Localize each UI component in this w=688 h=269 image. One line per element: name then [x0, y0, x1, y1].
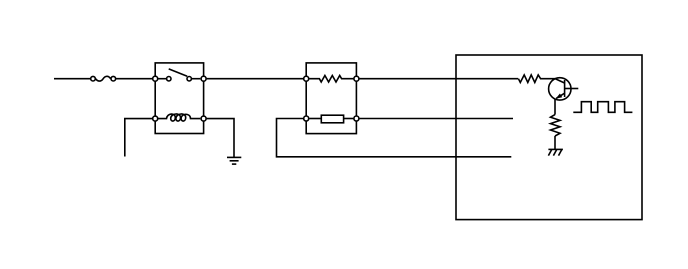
wire — [116, 78, 152, 80]
middle box terminal bottom-right — [354, 116, 359, 121]
relay terminal bottom-left — [153, 116, 158, 121]
middle box terminal top-left — [304, 76, 309, 81]
resistor R2 body — [321, 115, 343, 123]
transistor emitter with arrow — [556, 93, 564, 98]
square wave signal — [573, 102, 632, 113]
node: connector terminal left — [91, 76, 96, 81]
middle box terminal bottom-left — [304, 116, 309, 121]
transistor base bar — [564, 80, 566, 97]
relay box K1 — [155, 63, 203, 134]
relay terminal bottom-right — [201, 116, 206, 121]
relay terminal top-left — [153, 76, 158, 81]
wire: middle box to control unit (top) — [359, 78, 518, 80]
wire: relay to middle box — [207, 78, 304, 80]
wire: relay coil right lead to ground — [207, 119, 234, 158]
middle box (suppressor) — [306, 63, 356, 134]
transistor base lead — [565, 88, 579, 90]
switch contact circle left — [167, 77, 171, 81]
resistor R3 (zigzag) and lead to transistor — [518, 75, 555, 83]
resistor R4 (vertical zigzag) — [551, 115, 561, 136]
relay terminal top-right — [201, 76, 206, 81]
node: connector terminal right — [111, 76, 116, 81]
switch contact circle right — [187, 77, 191, 81]
transistor Q1 circle — [549, 78, 571, 100]
wire to chassis ground — [554, 136, 556, 149]
switch blade (open) — [169, 69, 188, 76]
earth ground — [227, 156, 241, 158]
chassis ground — [548, 148, 563, 150]
control unit box — [456, 55, 642, 220]
fuse squiggle link — [96, 76, 111, 81]
resistor R2 (box style) leads — [309, 118, 321, 120]
wire: input lead — [54, 78, 90, 80]
wire: emitter down — [554, 99, 556, 115]
wire: relay coil left lead — [125, 119, 152, 157]
middle box terminal top-right — [354, 76, 359, 81]
wire stub from switch contact — [192, 78, 201, 80]
wire stub to switch contact — [158, 78, 167, 80]
wire: middle box bottom-right into control unit — [359, 118, 513, 120]
wire: lower bus into control unit — [277, 119, 512, 157]
resistor R1 (zigzag) with leads — [309, 76, 353, 83]
relay coil L1 — [158, 114, 201, 121]
transistor collector diagonal — [555, 79, 565, 84]
